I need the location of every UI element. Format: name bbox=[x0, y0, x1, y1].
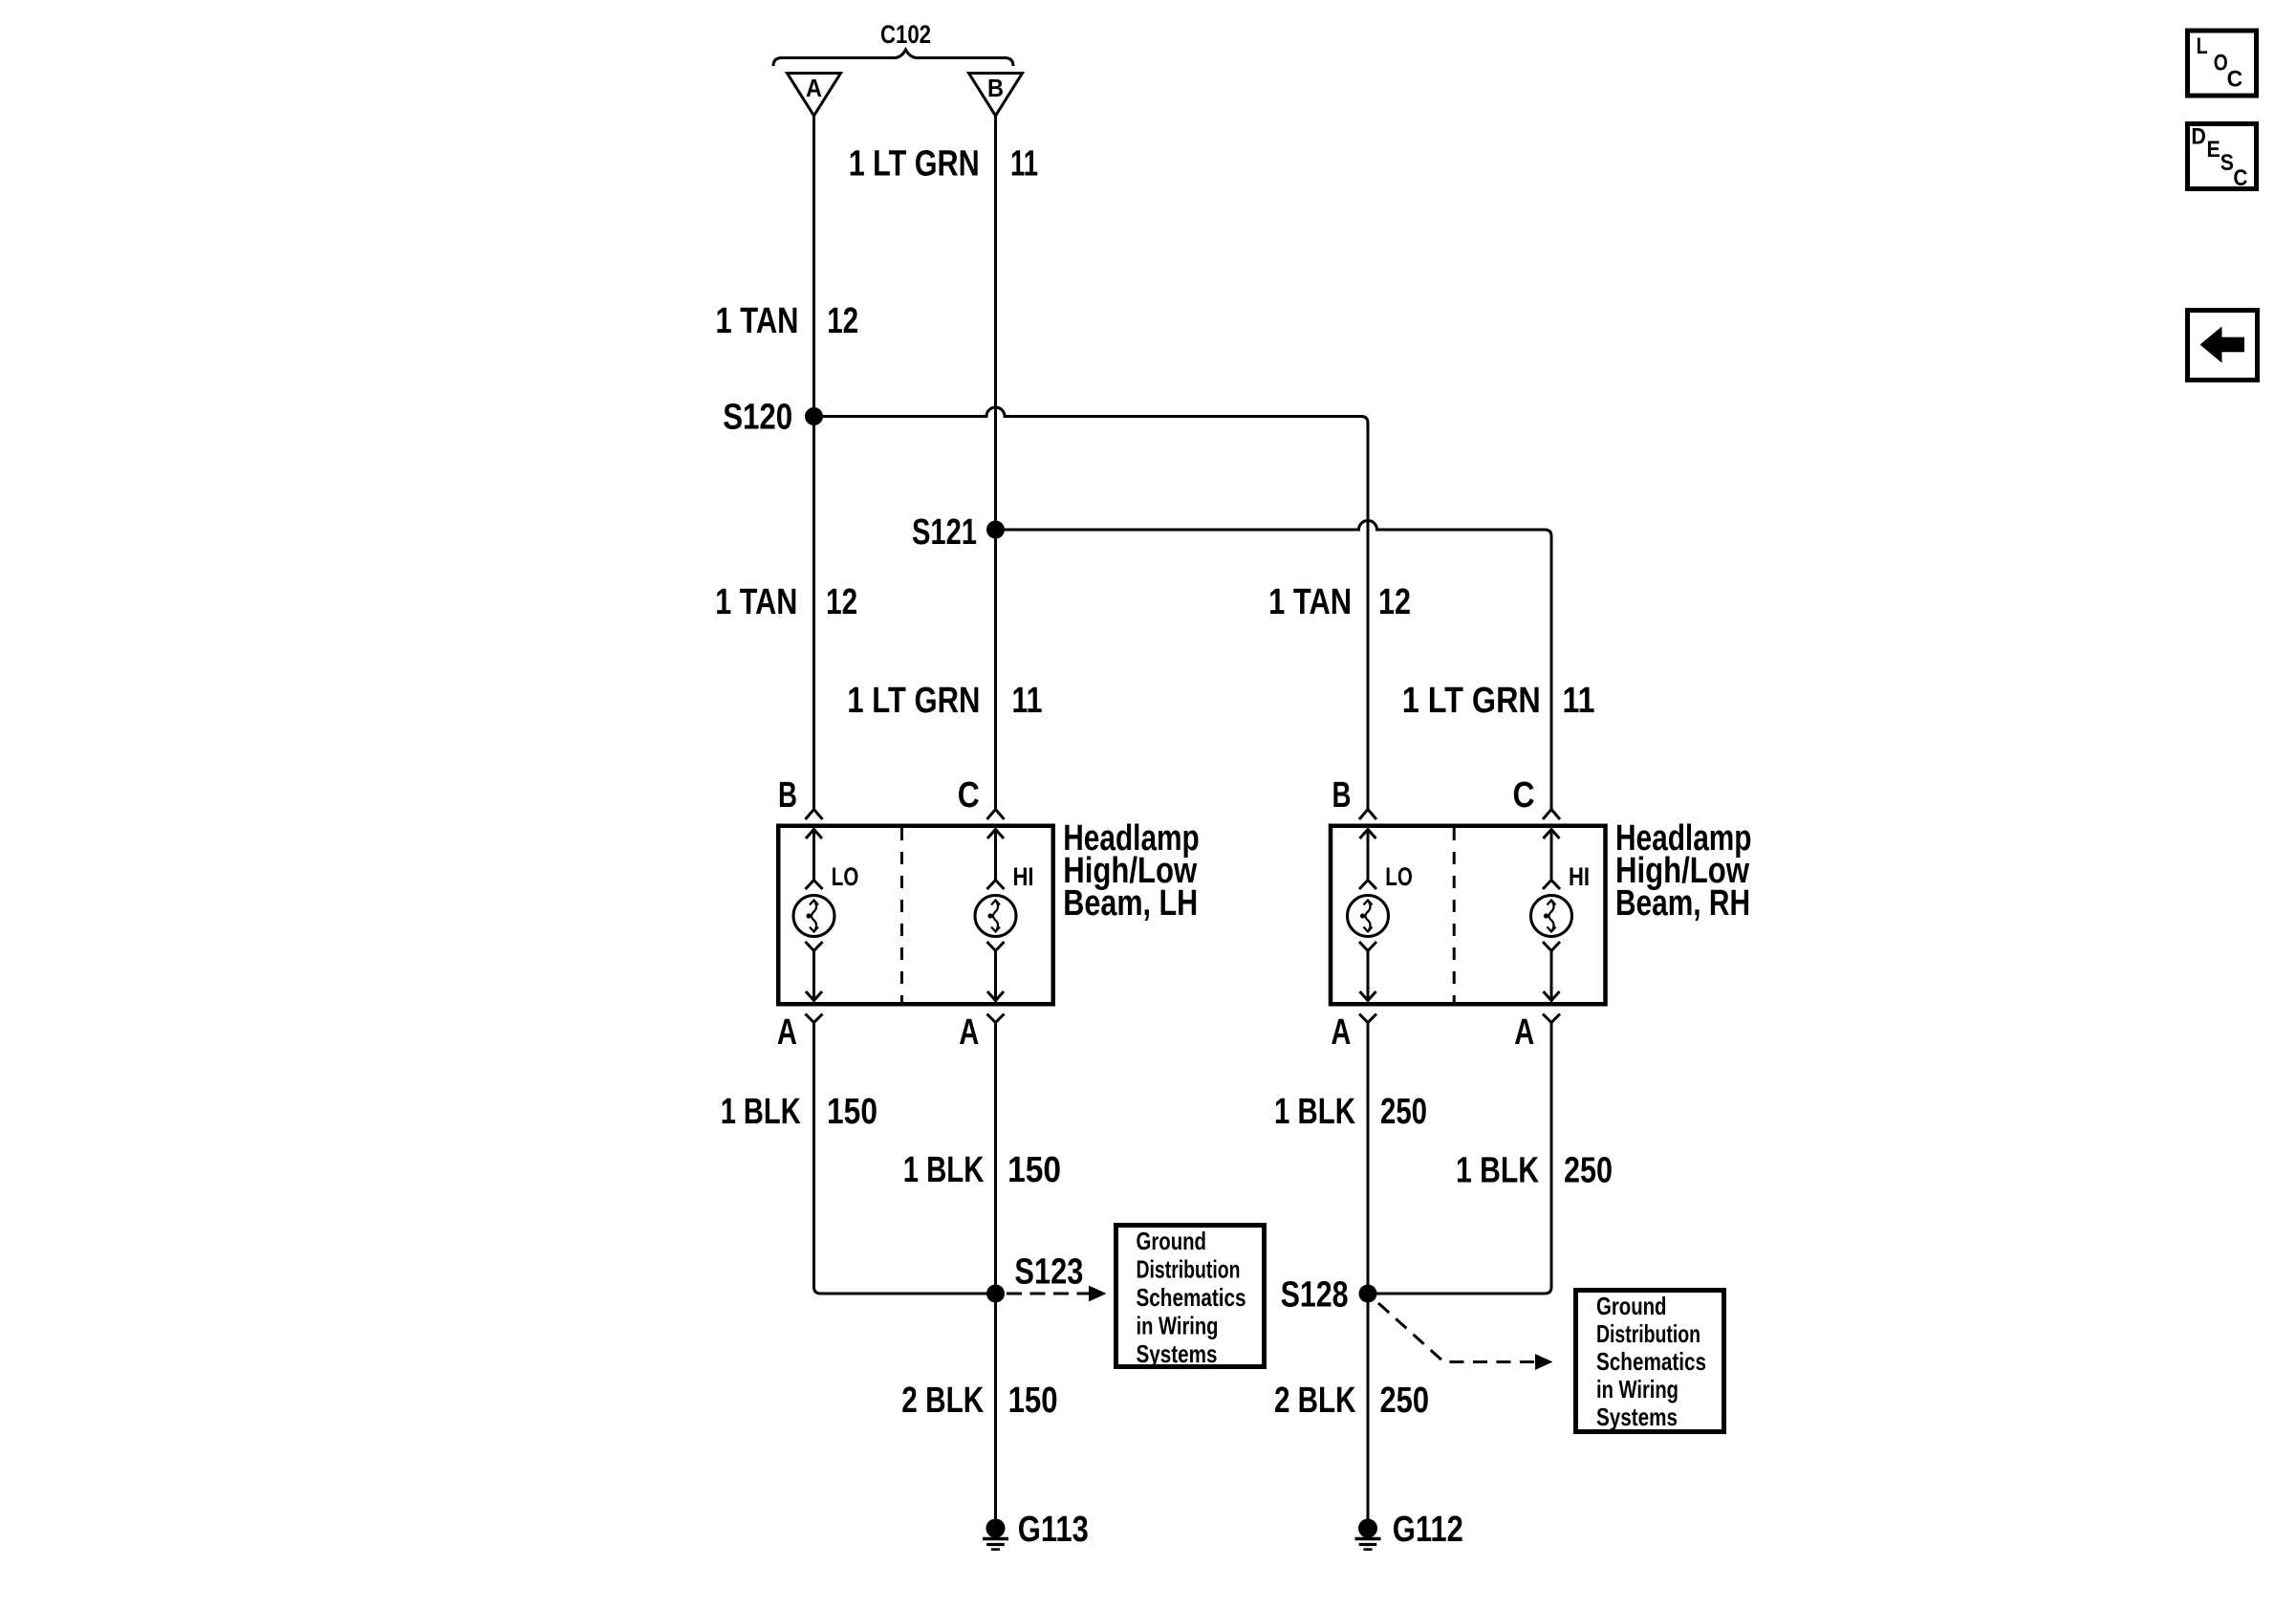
svg-text:1 LT GRN: 1 LT GRN bbox=[847, 681, 980, 721]
svg-text:Systems: Systems bbox=[1137, 1339, 1218, 1368]
svg-text:C: C bbox=[1513, 775, 1535, 816]
svg-text:11: 11 bbox=[1563, 681, 1595, 721]
headlamp high/low beam RH internal divider bbox=[1453, 828, 1456, 1002]
svg-text:11: 11 bbox=[1010, 144, 1038, 185]
svg-text:1 TAN: 1 TAN bbox=[1268, 582, 1352, 622]
svg-text:O: O bbox=[2214, 51, 2228, 76]
svg-text:12: 12 bbox=[826, 582, 857, 622]
headlamp high/low beam LH internal divider bbox=[900, 828, 903, 1002]
svg-text:1 LT GRN: 1 LT GRN bbox=[1402, 681, 1541, 721]
wire: LH LO pin A down, right to splice S123 (1 BLK 150) bbox=[814, 1023, 996, 1295]
ground G112 bbox=[1358, 1519, 1377, 1538]
ground distribution schematics note (right) bbox=[1576, 1291, 1724, 1432]
svg-text:A: A bbox=[959, 1012, 979, 1053]
back-arrow icon box bbox=[2188, 311, 2258, 381]
svg-text:1 BLK: 1 BLK bbox=[1456, 1151, 1539, 1191]
svg-text:11: 11 bbox=[1012, 681, 1043, 721]
svg-text:Distribution: Distribution bbox=[1596, 1319, 1700, 1348]
wire: LH HI pin A down through S123 to ground G113 (1 BLK / 2 BLK 150) bbox=[994, 1023, 997, 1529]
svg-text:Distribution: Distribution bbox=[1137, 1255, 1241, 1284]
svg-text:1 TAN: 1 TAN bbox=[716, 301, 799, 341]
svg-text:S128: S128 bbox=[1281, 1275, 1349, 1316]
connector pin B triangle bbox=[969, 74, 1023, 117]
svg-text:A: A bbox=[1331, 1012, 1351, 1053]
svg-text:250: 250 bbox=[1380, 1381, 1430, 1421]
svg-text:1 LT GRN: 1 LT GRN bbox=[849, 144, 980, 185]
svg-text:HI: HI bbox=[1013, 862, 1034, 891]
svg-text:Systems: Systems bbox=[1596, 1403, 1678, 1431]
connector pin A triangle bbox=[788, 74, 841, 117]
svg-text:LO: LO bbox=[1385, 862, 1413, 891]
svg-text:12: 12 bbox=[1378, 582, 1411, 622]
wire: RH HI pin A down, left to splice S128 (1 BLK 250) bbox=[1368, 1023, 1551, 1295]
svg-text:1 BLK: 1 BLK bbox=[721, 1092, 801, 1132]
svg-text:S121: S121 bbox=[912, 512, 977, 553]
svg-text:in Wiring: in Wiring bbox=[1137, 1312, 1219, 1340]
headlamp high/low beam LH LO element bbox=[793, 810, 834, 1023]
svg-text:C: C bbox=[2233, 165, 2247, 191]
svg-text:B: B bbox=[987, 74, 1004, 102]
headlamp high/low beam RH box bbox=[1331, 826, 1606, 1005]
svg-text:LO: LO bbox=[832, 862, 859, 891]
svg-text:B: B bbox=[1332, 775, 1352, 816]
headlamp high/low beam LH box bbox=[778, 826, 1053, 1005]
svg-text:150: 150 bbox=[1008, 1381, 1058, 1421]
svg-text:HI: HI bbox=[1569, 862, 1590, 891]
S128 dashed leader to ground distribution note bbox=[1378, 1303, 1535, 1362]
svg-text:250: 250 bbox=[1564, 1151, 1613, 1191]
splice S123 bbox=[986, 1285, 1005, 1303]
headlamp high/low beam LH HI element bbox=[975, 810, 1016, 1023]
splice S121 bbox=[986, 521, 1005, 539]
wire: C102-A down to LH headlamp pin B (1 TAN 12) bbox=[812, 116, 815, 809]
svg-text:250: 250 bbox=[1380, 1092, 1427, 1132]
splice S120 bbox=[805, 407, 823, 425]
ground distribution schematics note (left) bbox=[1116, 1226, 1265, 1367]
svg-text:C: C bbox=[958, 775, 980, 816]
svg-text:Schematics: Schematics bbox=[1596, 1347, 1706, 1376]
splice S128 bbox=[1359, 1285, 1377, 1303]
svg-text:A: A bbox=[777, 1012, 797, 1053]
svg-text:Ground: Ground bbox=[1596, 1292, 1667, 1320]
svg-text:G112: G112 bbox=[1393, 1510, 1463, 1550]
wire: S121 branch to RH headlamp pin C (hops over S120 branch wire) bbox=[996, 521, 1552, 810]
svg-text:Ground: Ground bbox=[1137, 1227, 1207, 1255]
svg-text:L: L bbox=[2197, 33, 2208, 59]
svg-text:Schematics: Schematics bbox=[1137, 1283, 1246, 1312]
wire: S120 branch to RH headlamp pin B (hops over LT GRN wire) bbox=[814, 407, 1369, 809]
svg-text:B: B bbox=[778, 775, 797, 816]
svg-text:12: 12 bbox=[827, 301, 858, 341]
svg-text:Beam, RH: Beam, RH bbox=[1615, 883, 1750, 924]
svg-text:A: A bbox=[806, 74, 822, 102]
headlamp high/low beam RH LO element bbox=[1348, 810, 1389, 1023]
ground G113 bbox=[986, 1519, 1006, 1538]
svg-text:G113: G113 bbox=[1018, 1510, 1089, 1550]
svg-text:Beam, LH: Beam, LH bbox=[1063, 883, 1198, 924]
svg-text:E: E bbox=[2207, 137, 2220, 163]
svg-text:150: 150 bbox=[1007, 1150, 1061, 1190]
wire: RH LO pin A down through S128 to ground G112 (1 BLK / 2 BLK 250) bbox=[1367, 1023, 1370, 1529]
wire: C102-B down to LH headlamp pin C (1 LT GRN 11) bbox=[994, 116, 997, 809]
svg-text:S120: S120 bbox=[723, 398, 792, 438]
svg-text:1 BLK: 1 BLK bbox=[1274, 1092, 1355, 1132]
svg-text:S: S bbox=[2220, 150, 2234, 176]
svg-text:D: D bbox=[2191, 124, 2206, 150]
svg-text:in Wiring: in Wiring bbox=[1596, 1375, 1679, 1403]
S123 dashed leader to ground distribution note bbox=[1007, 1293, 1089, 1295]
headlamp high/low beam RH HI element bbox=[1531, 810, 1572, 1023]
svg-text:S123: S123 bbox=[1014, 1252, 1083, 1293]
LOC icon box bbox=[2188, 31, 2257, 96]
svg-text:C: C bbox=[2227, 67, 2243, 93]
svg-text:1 TAN: 1 TAN bbox=[715, 582, 797, 622]
svg-text:A: A bbox=[1514, 1012, 1534, 1053]
connector C102 brace bbox=[773, 50, 1013, 66]
svg-text:C102: C102 bbox=[880, 20, 931, 49]
svg-text:1 BLK: 1 BLK bbox=[903, 1150, 985, 1190]
svg-text:150: 150 bbox=[827, 1092, 877, 1132]
svg-text:2 BLK: 2 BLK bbox=[901, 1381, 984, 1421]
DESC icon box bbox=[2188, 124, 2257, 192]
svg-text:2 BLK: 2 BLK bbox=[1274, 1381, 1356, 1421]
